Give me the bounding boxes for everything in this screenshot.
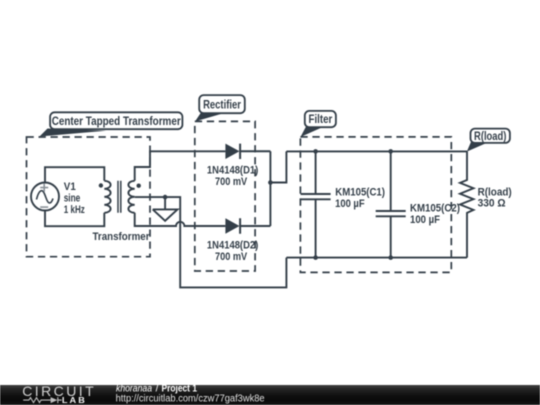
svg-text:http://circuitlab.com/czw77gaf: http://circuitlab.com/czw77gaf3wk8e [116, 394, 265, 405]
svg-text:LAB: LAB [62, 395, 87, 405]
